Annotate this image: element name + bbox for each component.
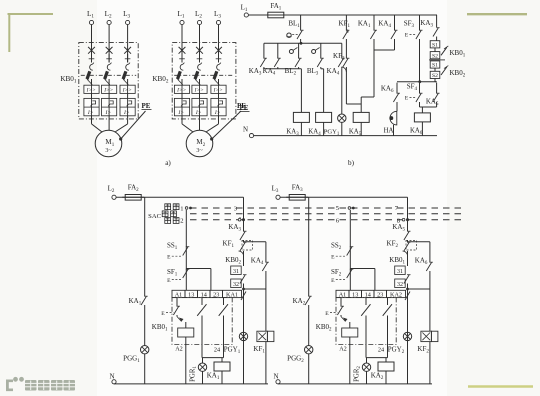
- svg-text:E: E: [325, 311, 329, 317]
- svg-text:1: 1: [180, 206, 183, 213]
- svg-text:31: 31: [233, 269, 239, 275]
- svg-text:32: 32: [397, 282, 403, 288]
- svg-text:SAC: SAC: [148, 213, 161, 220]
- svg-text:PE: PE: [142, 102, 151, 110]
- svg-text:E: E: [167, 278, 171, 284]
- svg-text:31: 31: [397, 269, 403, 275]
- svg-text:I>>: I>>: [122, 88, 132, 94]
- svg-text:E: E: [331, 278, 335, 284]
- svg-text:3~: 3~: [105, 148, 112, 154]
- svg-text:N: N: [243, 126, 248, 134]
- svg-text:S1: S1: [432, 43, 438, 49]
- svg-text:I>: I>: [104, 110, 111, 116]
- svg-text:32: 32: [233, 282, 239, 288]
- svg-text:24: 24: [214, 347, 220, 354]
- svg-text:A2: A2: [175, 346, 183, 353]
- svg-text:S2: S2: [432, 73, 438, 79]
- svg-text:E: E: [405, 96, 409, 102]
- svg-text:I>>: I>>: [213, 88, 223, 94]
- svg-text:3~: 3~: [196, 148, 203, 154]
- svg-text:S1: S1: [432, 63, 438, 69]
- svg-text:I>: I>: [87, 110, 94, 116]
- svg-text:E: E: [161, 311, 165, 317]
- svg-text:E: E: [167, 255, 171, 261]
- svg-text:I>: I>: [177, 110, 184, 116]
- svg-text:24: 24: [378, 347, 384, 354]
- svg-text:A2: A2: [339, 346, 347, 353]
- svg-text:E: E: [405, 33, 409, 39]
- svg-text:I>>: I>>: [86, 88, 96, 94]
- svg-text:PE: PE: [240, 104, 249, 112]
- svg-text:2: 2: [180, 217, 183, 224]
- svg-text:a): a): [165, 159, 171, 167]
- svg-text:I>>: I>>: [194, 88, 204, 94]
- svg-text:I>: I>: [123, 110, 130, 116]
- svg-text:I>>: I>>: [103, 88, 113, 94]
- svg-text:b): b): [348, 159, 355, 167]
- svg-text:I>>: I>>: [176, 88, 186, 94]
- svg-text:I>: I>: [214, 110, 221, 116]
- svg-text:HA: HA: [384, 128, 394, 135]
- svg-text:S2: S2: [432, 53, 438, 59]
- svg-text:I>: I>: [195, 110, 202, 116]
- svg-text:E: E: [331, 255, 335, 261]
